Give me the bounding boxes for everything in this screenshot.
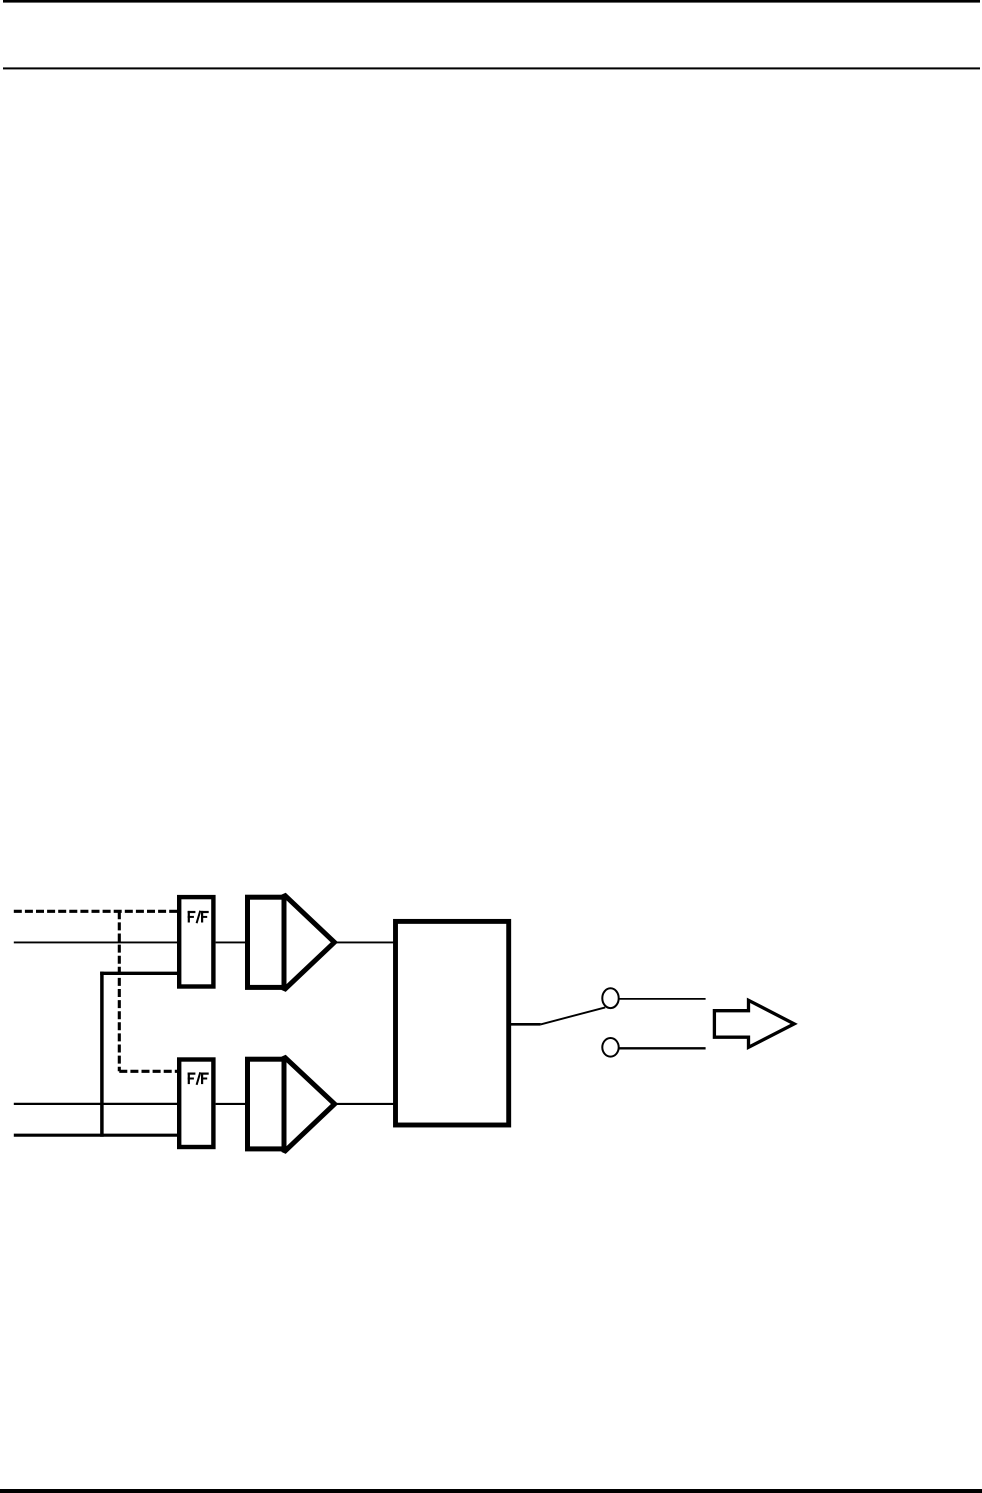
wire: FF2 to buffer B2 [216, 1103, 247, 1105]
wire: bottom input line thick [14, 1134, 177, 1137]
label F/F (FF2) [188, 1072, 209, 1085]
label F/F (FF1) [188, 911, 209, 924]
wire: selector output stub [511, 1023, 541, 1026]
buffer B1 triangle [284, 895, 334, 990]
buffer B2 triangle [284, 1057, 335, 1152]
flip-flop FF1 box [179, 897, 213, 986]
switch contact top [602, 988, 618, 1008]
wire: from bottom contact [619, 1047, 706, 1049]
footer rule [0, 1489, 982, 1493]
buffer B2 body [248, 1059, 285, 1149]
wire: buffer B1 to selector [334, 941, 395, 943]
output block arrow [714, 1000, 794, 1047]
wire: buffer B2 to selector [335, 1103, 395, 1105]
wire: switch arm diagonal [541, 1007, 606, 1024]
wire: FF1 to buffer B1 [216, 941, 247, 943]
wire: thick feed vertical [100, 972, 104, 1137]
wire: from top contact [619, 998, 706, 1000]
wire: dashed control line, bottom horizontal [119, 1070, 177, 1073]
wire: bottom input line thin [14, 1103, 177, 1105]
wire: top input line [14, 941, 177, 943]
flip-flop FF2 box [179, 1060, 213, 1148]
switch contact bottom [602, 1038, 618, 1057]
header rule [3, 67, 980, 69]
selector box U1 [396, 921, 509, 1125]
wire: thick feed horizontal to FF1 [100, 972, 177, 975]
top page rule [3, 0, 980, 3]
wire: dashed control line, vertical [118, 911, 121, 1071]
buffer B1 body [248, 897, 285, 987]
wire: dashed control line, top horizontal [14, 910, 177, 913]
